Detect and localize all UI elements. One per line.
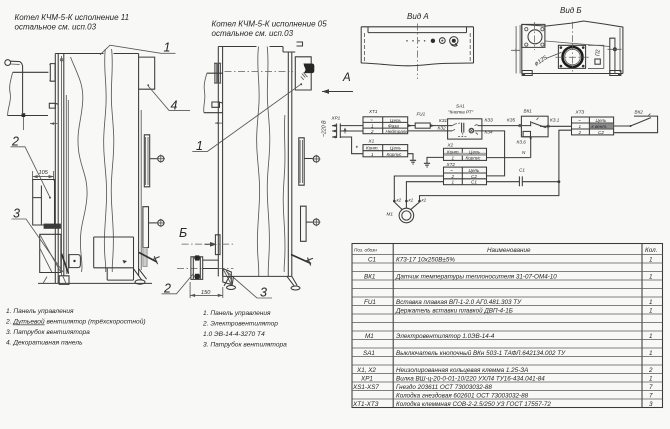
- svg-text:ХТ2: ХТ2: [446, 162, 456, 167]
- leader and label 1 (boiler1): [100, 45, 176, 55]
- svg-text:ХТ1-ХТЗ: ХТ1-ХТЗ: [352, 401, 379, 408]
- svg-text:3. Патрубок вентилятора: 3. Патрубок вентилятора: [203, 341, 287, 349]
- svg-text:КЗ2: КЗ2: [438, 126, 447, 131]
- svg-text:КЗ.1: КЗ.1: [550, 118, 560, 123]
- ash door handle slanted: [291, 255, 311, 264]
- wire XT1 row2 to SA1 lower contact: [408, 130, 448, 132]
- fan mount bracket left (центр): [215, 235, 220, 255]
- svg-text:Цепь: Цепь: [469, 149, 481, 154]
- svg-text:2. Электровентилятор: 2. Электровентилятор: [202, 321, 278, 328]
- fan flange with bolts (pos.2): [191, 257, 203, 280]
- capacitor C1: [519, 168, 525, 187]
- svg-text:1: 1: [452, 180, 455, 185]
- top edge: [218, 47, 295, 53]
- svg-text:С1: С1: [519, 168, 525, 173]
- knob: [450, 37, 458, 45]
- wire FU1 to SA1: [430, 125, 447, 127]
- svg-text:ХТ1: ХТ1: [368, 109, 378, 114]
- plug XP1: [331, 116, 347, 139]
- svg-text:4. Декоративная панель: 4. Декоративная панель: [6, 340, 83, 347]
- wire XP1 to XT1 row2: [340, 130, 363, 132]
- housing outline: [522, 21, 623, 74]
- svg-text:Цепь: Цепь: [390, 146, 402, 151]
- svg-text:2. Дутьевой вентилятор (трёхск: 2. Дутьевой вентилятор (трёхскоростной): [5, 318, 146, 326]
- svg-text:SA1: SA1: [363, 350, 375, 357]
- wall mount panel (broken wall): [13, 71, 49, 73]
- svg-text:Конт.: Конт.: [366, 146, 379, 151]
- temperature sensor BK1: [517, 109, 560, 145]
- svg-text:2: 2: [648, 367, 653, 374]
- svg-text:Гнездо 203611 ОСТ 73003032-88: Гнездо 203611 ОСТ 73003032-88: [396, 383, 492, 391]
- wire BK1 to XT3: [548, 125, 571, 127]
- svg-text:105: 105: [39, 170, 49, 176]
- wavy break lines: [257, 47, 260, 277]
- wire XP1 pin3 to X1 (корпус): [340, 137, 363, 154]
- wire junction down to motor terminal 3: [420, 182, 559, 200]
- svg-text:Цепь: Цепь: [596, 118, 608, 123]
- boiler 1 (исполнение 11): [5, 41, 190, 285]
- svg-text:А: А: [342, 72, 351, 84]
- wire XT1 row1 to FU1: [408, 125, 416, 127]
- button filled: [431, 39, 435, 43]
- патрубок (pos.3): [223, 269, 232, 285]
- fan flange dark bar: [44, 224, 61, 229]
- svg-text:КЗ.6: КЗ.6: [517, 140, 527, 145]
- svg-text:1. Панель управления: 1. Панель управления: [6, 308, 74, 315]
- svg-text:Неизолированная кольцевая клем: Неизолированная кольцевая клемма 1.25-ЗА: [396, 367, 528, 374]
- centerlines: [555, 22, 588, 72]
- svg-text:Цепь: Цепь: [390, 118, 402, 123]
- small bracket lower: [49, 103, 58, 108]
- svg-text:ВК1: ВК1: [364, 274, 375, 281]
- door strip lower (dark) + handle: [301, 206, 307, 241]
- svg-text:М1: М1: [387, 212, 394, 217]
- svg-text:Х1: Х1: [368, 139, 375, 144]
- svg-text:к1: к1: [409, 198, 414, 203]
- svg-text:Корпус: Корпус: [466, 156, 482, 161]
- svg-text:~220 В: ~220 В: [322, 120, 328, 137]
- feet: [522, 71, 621, 76]
- svg-text:1: 1: [649, 299, 653, 306]
- svg-text:ХР1: ХР1: [331, 116, 341, 121]
- svg-text:Котел КЧМ-5-К исполнение 05: Котел КЧМ-5-К исполнение 05: [212, 19, 328, 28]
- wire XP1 to XT1 (phase): [340, 125, 363, 127]
- svg-text:1: 1: [371, 152, 374, 157]
- row lines: [352, 255, 663, 400]
- svg-text:Вилка ВШ-ц-20-0-01-10/220 УХЛ4: Вилка ВШ-ц-20-0-01-10/220 УХЛ4 ТУ16-434.…: [396, 376, 545, 383]
- svg-text:Вставка плавкая ВП-1-2.0 АГ0.4: Вставка плавкая ВП-1-2.0 АГ0.481.303 ТУ: [396, 299, 522, 306]
- svg-text:С1: С1: [368, 257, 376, 264]
- small bracket: [212, 102, 222, 107]
- svg-text:С2: С2: [471, 174, 477, 179]
- svg-text:7: 7: [649, 393, 653, 400]
- svg-text:КЗ4: КЗ4: [485, 130, 494, 135]
- wire SA1 to BK1: [482, 125, 522, 127]
- boiler 2 (исполнение 05): [162, 42, 328, 300]
- svg-text:Б: Б: [179, 226, 187, 240]
- svg-text:ХТЗ: ХТЗ: [575, 110, 585, 115]
- svg-text:3: 3: [260, 286, 267, 300]
- right wall: [138, 54, 140, 277]
- svg-text:~: ~: [450, 168, 453, 173]
- dark knob on panel: [304, 64, 315, 74]
- svg-text:остальное см. исп.03: остальное см. исп.03: [212, 29, 294, 38]
- svg-text:1. Панель управления: 1. Панель управления: [203, 310, 271, 317]
- svg-text:3: 3: [649, 401, 653, 408]
- fuse FU1: [415, 112, 430, 129]
- node junction under XT3: [558, 180, 561, 183]
- svg-text:Держатель вставки плавкой ДВП-: Держатель вставки плавкой ДВП-4-1Б: [395, 307, 513, 315]
- centerline: [417, 24, 419, 80]
- fan duct (pos.3): [40, 234, 61, 272]
- svg-text:К73-17 10х250В±5%: К73-17 10х250В±5%: [396, 257, 455, 264]
- svg-text:Наименование: Наименование: [487, 247, 531, 254]
- view arrow A: [322, 72, 353, 94]
- svg-text:FU1: FU1: [364, 299, 376, 306]
- svg-text:Конт.: Конт.: [447, 149, 460, 154]
- column dividers: [393, 244, 642, 408]
- svg-text:1: 1: [371, 123, 374, 128]
- svg-text:1: 1: [196, 139, 203, 153]
- svg-text:Датчик температуры теплоносите: Датчик температуры теплоносителя 31-07-О…: [395, 274, 557, 281]
- svg-text:Колодка гнездовая 602601 ОСТ 7: Колодка гнездовая 602601 ОСТ 73003032-88: [396, 392, 529, 400]
- svg-text:к1: к1: [422, 198, 427, 203]
- wire XT2 row2 to motor terminal 1: [394, 176, 443, 200]
- wall tick arrow: [215, 122, 222, 124]
- svg-text:к вент.: к вент.: [592, 124, 608, 129]
- svg-text:Вид Б: Вид Б: [560, 6, 582, 15]
- control panel (pos.1): [295, 57, 311, 90]
- svg-text:Нейтраль: Нейтраль: [386, 128, 409, 134]
- small dim right of plate: [588, 45, 604, 68]
- svg-text:Поз. обозн: Поз. обозн: [354, 248, 377, 253]
- svg-text:1: 1: [649, 376, 653, 383]
- wire junction up to XT3 row2: [559, 130, 572, 182]
- svg-text:2: 2: [370, 129, 374, 134]
- ground 2: [424, 163, 430, 167]
- base lines: [38, 282, 152, 284]
- ash door handle (slanted): [139, 253, 157, 263]
- pipe with valve: [22, 74, 24, 113]
- wire BK1 down to X2 net: [530, 137, 532, 158]
- svg-text:1: 1: [164, 41, 171, 55]
- right wall: [288, 52, 292, 276]
- connector table XT3: [572, 110, 614, 136]
- dashed side lines: [363, 33, 365, 62]
- svg-text:1: 1: [649, 274, 653, 281]
- parts list table: [352, 244, 663, 409]
- fan box (pos.2): [33, 180, 55, 226]
- svg-text:2: 2: [578, 130, 582, 135]
- small indicator dots: [406, 40, 408, 42]
- bottom feet: [224, 276, 297, 286]
- parts list boiler 1: [5, 308, 146, 347]
- wire X1 to ground: [408, 154, 413, 160]
- svg-text:Колодка клеммная СОВ-2-2.5/250: Колодка клеммная СОВ-2-2.5/250 УЗ ГОСТ 1…: [396, 400, 551, 408]
- bottom right foot: [134, 269, 147, 281]
- svg-text:SA1: SA1: [456, 104, 465, 109]
- svg-text:1: 1: [649, 350, 653, 357]
- svg-text:Вид А: Вид А: [407, 12, 429, 21]
- svg-text:Х1, Х2: Х1, Х2: [356, 367, 376, 374]
- foot box: [59, 276, 69, 285]
- svg-text:1: 1: [579, 124, 582, 129]
- svg-text:1: 1: [649, 333, 653, 340]
- svg-text:С2: С2: [598, 130, 604, 135]
- door strip upper + handle: [299, 138, 304, 185]
- svg-text:3: 3: [13, 207, 20, 221]
- wire SA1 lower to XT2 row C2: [482, 131, 505, 176]
- svg-text:~: ~: [578, 118, 581, 123]
- wire C1 to junction: [522, 181, 559, 183]
- door strip upper + handle: [144, 135, 149, 187]
- switch SA1 (Кнопка РТ): [438, 104, 482, 140]
- connector table XT2: [444, 162, 487, 185]
- svg-text:"Кнопка РТ": "Кнопка РТ": [448, 110, 474, 115]
- mounting studs: [215, 63, 220, 83]
- connector table X2: [444, 143, 487, 161]
- view arrow Б: [179, 226, 217, 247]
- svg-text:1: 1: [649, 308, 653, 315]
- right bracket: [610, 38, 615, 73]
- svg-text:остальное см. исп.03: остальное см. исп.03: [15, 23, 97, 32]
- svg-text:Х2: Х2: [447, 143, 454, 148]
- svg-text:3. Патрубок вентилятора: 3. Патрубок вентилятора: [6, 328, 90, 336]
- svg-text:2: 2: [451, 174, 455, 179]
- svg-text:Кол.: Кол.: [645, 247, 657, 254]
- wire X2 to BK1 vertical: [487, 157, 531, 159]
- left wall of boiler: [54, 54, 56, 284]
- svg-text:1.0 ЭВ-14-4-3270 Т4: 1.0 ЭВ-14-4-3270 Т4: [203, 331, 265, 338]
- svg-text:С1: С1: [471, 180, 477, 185]
- Вид Б fan housing drawing: [511, 21, 623, 76]
- duct outlet bracket: [69, 255, 80, 268]
- svg-text:1: 1: [649, 257, 653, 264]
- svg-text:ХS1-ХS7: ХS1-ХS7: [352, 384, 379, 391]
- left wall: [218, 47, 222, 277]
- svg-text:КЗЗ: КЗЗ: [485, 118, 494, 123]
- left wall panel (broken): [204, 73, 223, 113]
- wire XT2 row1 to capacitor C1: [487, 181, 520, 183]
- svg-text:~: ~: [370, 118, 373, 123]
- svg-text:П2: П2: [596, 49, 602, 56]
- svg-text:КЗ1: КЗ1: [439, 118, 448, 123]
- svg-text:Фаза: Фаза: [388, 123, 399, 128]
- ground 1: [410, 160, 416, 164]
- electric fan motor M1: [387, 198, 427, 223]
- svg-text:ВК1: ВК1: [524, 109, 533, 114]
- parts list boiler 2: [202, 310, 287, 349]
- handle top left: [5, 60, 11, 66]
- wire X2 to ground 2: [427, 157, 444, 163]
- connector table XT1: [363, 109, 408, 134]
- outlet ring (thick): [563, 47, 583, 67]
- Вид А panel drawing: [361, 24, 473, 80]
- decorative panel (pos.4): [139, 57, 155, 89]
- thermal switch BK2: [614, 110, 658, 133]
- leader and label 4: [148, 86, 190, 110]
- connector table X1: [356, 139, 408, 157]
- svg-text:КЗ5: КЗ5: [507, 118, 516, 123]
- svg-text:Корпус: Корпус: [387, 152, 403, 157]
- door strip lower + handle: [143, 207, 149, 248]
- outlet plate: [558, 45, 585, 68]
- panel outline: [361, 27, 473, 63]
- wire XT2 row1 to motor terminal 2: [406, 182, 443, 200]
- svg-text:ХР1: ХР1: [360, 376, 373, 383]
- bracket on wall top: [50, 64, 55, 82]
- wavy bottom edge: [361, 63, 473, 66]
- svg-text:4: 4: [171, 99, 178, 113]
- svg-text:7: 7: [649, 384, 653, 391]
- svg-text:к2: к2: [397, 198, 402, 203]
- svg-text:ВК2: ВК2: [635, 110, 644, 115]
- wavy break lines: [71, 57, 88, 272]
- button ring: [439, 38, 445, 44]
- svg-text:Цепь: Цепь: [469, 168, 481, 173]
- top edge: [55, 53, 138, 55]
- left flange with bolt holes: [522, 24, 545, 47]
- svg-text:М1: М1: [365, 333, 374, 340]
- svg-text:FU1: FU1: [417, 112, 426, 117]
- svg-text:Электровентилятор 1.0ЭВ-14-4: Электровентилятор 1.0ЭВ-14-4: [396, 333, 495, 340]
- svg-text:Котел КЧМ-5-К исполнение 11: Котел КЧМ-5-К исполнение 11: [15, 13, 130, 22]
- svg-text:Выключатель кнопочный ВКн 503-: Выключатель кнопочный ВКн 503-1 ТАФЛ.642…: [396, 349, 566, 357]
- svg-text:1: 1: [452, 156, 455, 161]
- firebox bottom area: [94, 237, 134, 280]
